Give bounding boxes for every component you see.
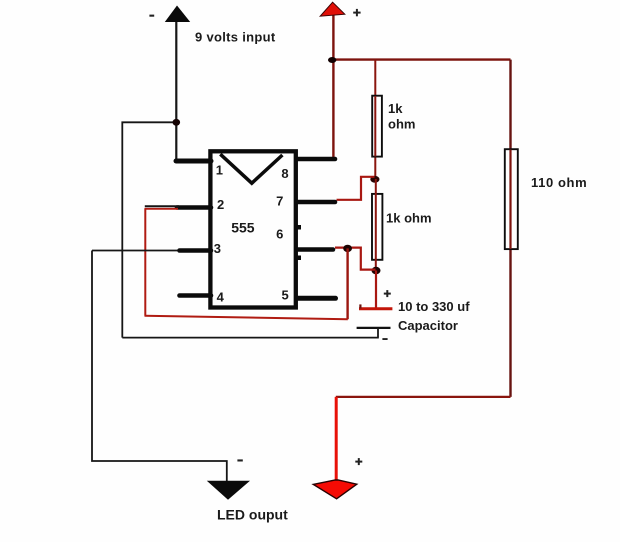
resistor R1 body (1k ohm, upper) (372, 96, 382, 157)
wire: capacitor positive feed from junction down to plate (375, 271, 377, 308)
resistor R2 body (1k ohm, lower) (372, 194, 382, 260)
svg-text:9 volts input: 9 volts input (195, 30, 276, 45)
svg-text:1k: 1k (388, 101, 403, 116)
LED positive output arrow (313, 480, 357, 499)
wire: pin 3 stub (180, 248, 212, 253)
wire: pin 5 stub (297, 296, 336, 301)
svg-text:LED ouput: LED ouput (217, 507, 288, 523)
wire: red overlap below pin 2 lead (145, 208, 179, 210)
wire: bottom red rail from 110 ohm to LED plus stem (336, 396, 511, 398)
svg-text:8: 8 (281, 166, 288, 181)
capacitor C1 negative plate (black) (357, 327, 391, 329)
svg-text:3: 3 (214, 241, 221, 256)
label: minus sign at capacitor (382, 338, 387, 340)
wire: capacitor negative plate drop to minus rail (377, 328, 379, 338)
battery negative terminal arrow (165, 6, 190, 23)
label: minus sign at LED output (237, 459, 242, 461)
capacitor C1 positive plate (red) (359, 307, 392, 310)
svg-text:10 to 330 uf: 10 to 330 uf (398, 299, 470, 314)
svg-text:7: 7 (276, 193, 283, 208)
wire: battery plus stem (vertical dark red) (332, 14, 334, 159)
wire: red lead through R3 body (509, 150, 511, 250)
wire: LED plus stem (bright red) (335, 397, 338, 481)
node: junction on minus stem (173, 119, 181, 126)
svg-text:2: 2 (217, 197, 224, 212)
IC U1 orientation notch (220, 154, 282, 183)
svg-text:555: 555 (231, 219, 255, 235)
wire: red lead through R1 body (374, 96, 376, 157)
wire: pin 1 stub (176, 159, 211, 164)
svg-text:110 ohm: 110 ohm (531, 175, 587, 190)
node: junction at end of pin 6 lead (343, 245, 352, 252)
label: plus sign at battery positive (353, 9, 360, 16)
battery positive terminal arrow (320, 2, 345, 16)
svg-text:ohm: ohm (388, 116, 415, 131)
wire: pin 2 red riser down left side (144, 209, 146, 316)
svg-text:6: 6 (276, 227, 283, 242)
label: plus sign at capacitor (384, 290, 391, 297)
wire: from minus stem junction left then down to capacitor minus rail (122, 122, 176, 337)
svg-text:Capacitor: Capacitor (398, 318, 458, 333)
wire: LED minus riser and run to stem (92, 251, 227, 482)
node: tick at left end of capacitor positive plate (359, 304, 361, 308)
resistor R3 body (110 ohm) (505, 149, 518, 249)
wire: tap from pin 7 to junction below R1 (337, 177, 375, 200)
wire: bottom red rail under IC (pin 2 to pin 6 link) (145, 316, 348, 320)
node: junction below R1 (pin 7 tap) (370, 176, 379, 183)
IC U1 555 timer body (210, 151, 295, 307)
svg-text:1k ohm: 1k ohm (386, 210, 432, 225)
wire: pin 4 stub (180, 293, 212, 298)
wire: right vertical rail through 110 ohm (509, 60, 511, 397)
node: junction of plus stem and top rail (328, 57, 336, 63)
svg-text:4: 4 (217, 289, 225, 304)
label: plus sign at LED output (355, 458, 362, 465)
wire: battery minus stem (vertical black) (175, 20, 177, 161)
wire: top horizontal rail from plus stem to 110 ohm branch (333, 58, 511, 60)
node: unused stub nub on IC right edge (upper) (297, 225, 302, 230)
wire: pin 7 stub (297, 200, 335, 205)
wire: capacitor minus rail to left riser (122, 337, 379, 339)
wire: pin 3 lead extension to LED riser (92, 250, 178, 252)
wire: pin 2 stub (177, 205, 211, 210)
wire: red lead through R2 from junction to lower junction (375, 179, 377, 271)
node: junction below R2 (capacitor feed) (372, 267, 381, 274)
node: unused stub nub on IC right edge (lower) (297, 256, 302, 261)
wire: tap from pin 6 junction to below-R2 junction (335, 248, 376, 270)
wire: pin 6 stub (297, 247, 333, 252)
wire: branch down from top rail to resistor R1 (374, 60, 376, 179)
wire: pin 2 thin lead extension (145, 205, 179, 207)
wire: from pin6 junction down to bottom red rail (346, 248, 348, 319)
wire: pin 8 stub (297, 157, 335, 162)
LED negative output arrow (207, 481, 250, 500)
svg-text:1: 1 (216, 163, 223, 178)
svg-text:5: 5 (282, 287, 289, 302)
label: minus sign at battery negative (149, 15, 154, 17)
